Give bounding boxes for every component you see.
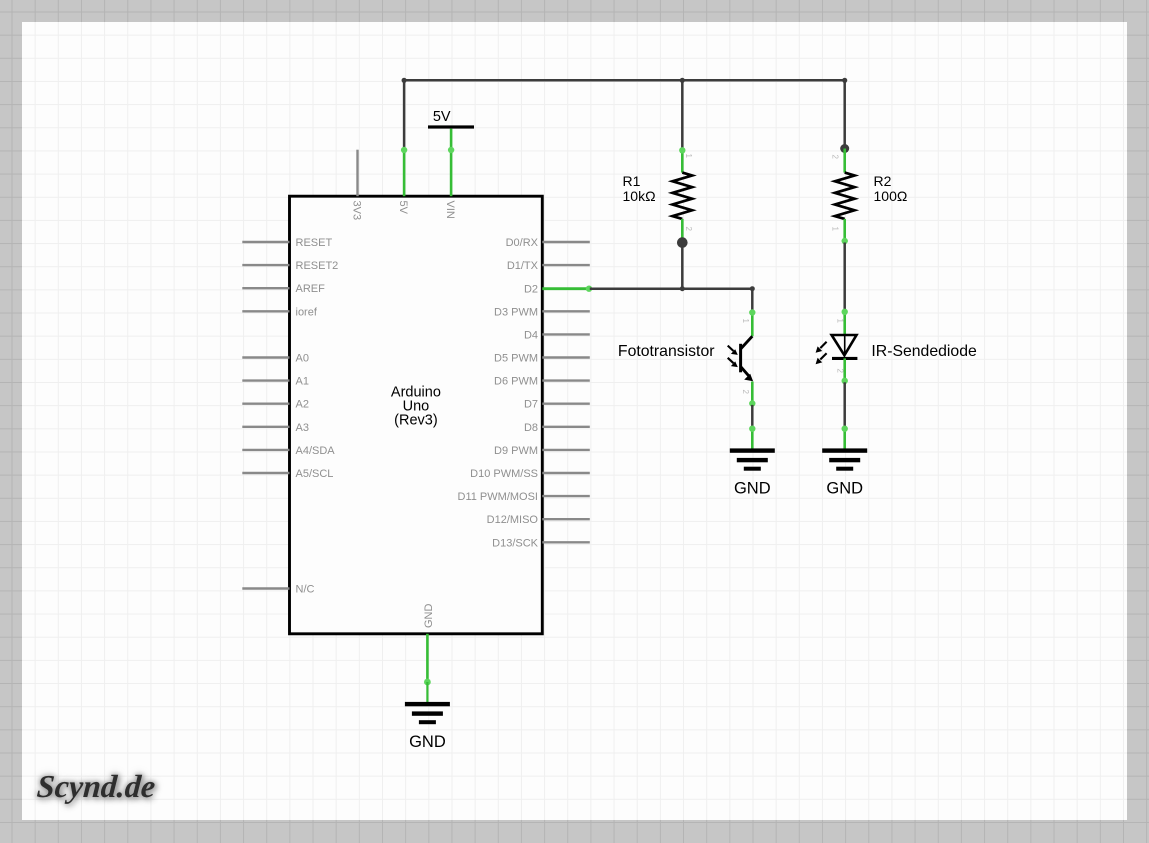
resistor R2: upper pin (green) <box>843 149 846 173</box>
endpoint blob D1 pin2 <box>842 378 848 384</box>
svg-text:2: 2 <box>836 369 845 374</box>
endpoint blob D1 pin1 <box>842 309 848 315</box>
endpoint blob GND2 pin <box>842 426 848 432</box>
resistor R2: lower pin (green) <box>843 219 846 243</box>
pin D3 PWM <box>542 310 590 312</box>
pin A0 <box>242 356 289 358</box>
pin A3 <box>242 426 289 428</box>
wire: vertical drop from top rail to R2 <box>843 80 846 148</box>
svg-text:R1: R1 <box>623 173 641 189</box>
svg-text:A3: A3 <box>296 422 309 434</box>
pin D9 PWM <box>542 449 590 451</box>
node: big dot below R1 <box>677 237 688 248</box>
svg-text:R2: R2 <box>874 173 892 189</box>
pin D2 (green, connected) <box>542 287 590 290</box>
pin D4 <box>542 333 590 335</box>
resistor R1: zigzag body <box>673 173 693 219</box>
endpoint blob on D2 pin <box>586 286 592 292</box>
pin D11 PWM/MOSI <box>542 495 590 497</box>
LED D1: light arrow 2 (emitting) <box>820 353 826 359</box>
pin RESET <box>242 241 289 243</box>
svg-text:D0/RX: D0/RX <box>506 237 539 249</box>
svg-text:D4: D4 <box>524 329 538 341</box>
svg-text:3V3: 3V3 <box>351 201 363 221</box>
pin D13/SCK <box>542 541 590 543</box>
svg-text:1: 1 <box>741 319 750 324</box>
pin A2 <box>242 403 289 405</box>
svg-text:D12/MISO: D12/MISO <box>487 514 539 526</box>
endpoint blob on VIN pin <box>448 147 454 153</box>
svg-text:GND: GND <box>423 604 435 629</box>
svg-text:1: 1 <box>836 319 845 324</box>
wire: LED cathode to GND symbol <box>843 382 846 428</box>
pin D8 <box>542 426 590 428</box>
endpoint blob on GND wire <box>424 679 431 686</box>
wire: vertical drop from top rail to R1 <box>681 80 684 149</box>
svg-text:5V: 5V <box>433 109 451 125</box>
phototransistor Q1: emitter pin (green) <box>751 382 754 405</box>
pin: Arduino GND pin (green, bottom) <box>426 634 429 682</box>
node: junction dot above R1 <box>680 78 685 83</box>
pin A1 <box>242 379 289 381</box>
svg-text:A0: A0 <box>296 353 309 365</box>
ground GND1: bars <box>730 448 775 452</box>
wire: Q1 emitter to GND symbol <box>751 405 754 429</box>
svg-text:Fototransistor: Fototransistor <box>618 343 715 360</box>
pin A5/SCL <box>242 472 289 474</box>
node: corner dot at 5V rail left <box>402 78 407 83</box>
pin AREF <box>242 287 289 289</box>
resistor R2: zigzag body <box>835 173 855 219</box>
svg-text:GND: GND <box>826 480 863 498</box>
svg-text:1: 1 <box>684 154 693 159</box>
phototransistor Q1: collector lead <box>741 336 753 349</box>
svg-text:D11 PWM/MOSI: D11 PWM/MOSI <box>458 491 538 503</box>
pin A4/SDA <box>242 449 289 451</box>
Arduino U1: body <box>290 196 543 634</box>
endpoint blob Q1 pin1 <box>749 309 755 315</box>
svg-text:D13/SCK: D13/SCK <box>492 537 539 549</box>
svg-text:IR-Sendediode: IR-Sendediode <box>871 343 977 360</box>
ground GND1 (under phototransistor): pin (green) <box>751 427 754 450</box>
pin D1/TX <box>542 264 590 266</box>
svg-text:ioref: ioref <box>296 306 318 318</box>
pin RESET2 <box>242 264 289 266</box>
svg-text:(Rev3): (Rev3) <box>394 412 438 428</box>
svg-text:5V: 5V <box>397 201 409 215</box>
svg-text:RESET2: RESET2 <box>296 260 339 272</box>
ground GND2 (under IR LED): pin (green) <box>843 427 846 450</box>
phototransistor Q1: base bar <box>739 344 742 373</box>
watermark logo Scynd.de <box>36 768 157 805</box>
node: corner dot above R2 <box>842 78 847 83</box>
svg-text:1: 1 <box>831 227 840 232</box>
wire: R1 bottom down to D2 net <box>681 243 684 289</box>
wire: down to phototransistor <box>751 289 754 313</box>
svg-text:D9 PWM: D9 PWM <box>494 445 538 457</box>
phototransistor Q1: light arrow 2 <box>728 358 734 363</box>
svg-text:GND: GND <box>409 733 446 751</box>
pin D7 <box>542 403 590 405</box>
pin: Arduino 5V pin (green) <box>403 148 406 196</box>
svg-text:RESET: RESET <box>296 237 333 249</box>
pin D5 PWM <box>542 356 590 358</box>
svg-text:D8: D8 <box>524 422 538 434</box>
svg-text:10kΩ: 10kΩ <box>623 188 656 204</box>
svg-text:A2: A2 <box>296 399 309 411</box>
pin ioref <box>242 310 289 312</box>
ground GND2: bars <box>822 448 867 452</box>
endpoint blob GND1 pin <box>749 426 755 432</box>
phototransistor Q1: collector pin (green) <box>751 312 754 337</box>
endpoint blob on 5V pin <box>401 147 407 153</box>
wire: D2 horizontal run <box>590 287 753 290</box>
pin: 3V3 stub (unconnected, gray) <box>356 150 358 197</box>
svg-text:2: 2 <box>741 390 750 395</box>
svg-text:A1: A1 <box>296 376 309 388</box>
resistor R1: upper pin (green) <box>681 149 684 173</box>
svg-text:2: 2 <box>684 227 693 232</box>
svg-text:AREF: AREF <box>296 283 326 295</box>
svg-text:GND: GND <box>734 480 771 498</box>
node: corner dot above phototransistor <box>750 286 755 291</box>
pin: Arduino VIN pin (green) <box>450 150 453 196</box>
svg-text:D1/TX: D1/TX <box>507 260 539 272</box>
endpoint blob Q1 pin2 <box>749 400 755 406</box>
LED D1 (IR): anode pin (green) <box>843 311 846 337</box>
phototransistor Q1: light arrow 1 <box>728 346 734 351</box>
endpoint blob R2 pin2 <box>842 238 848 244</box>
phototransistor Q1: emitter lead with arrow <box>741 367 750 378</box>
wire: R2 bottom to IR LED <box>843 243 846 312</box>
LED D1: center line <box>844 335 846 355</box>
svg-text:2: 2 <box>831 155 840 160</box>
ground GND3: bars <box>405 702 450 706</box>
pin D0/RX <box>542 241 590 243</box>
svg-text:100Ω: 100Ω <box>874 188 908 204</box>
wire: vertical drop from top rail to Arduino 5V pin <box>403 80 406 147</box>
pin D10 PWM/SS <box>542 472 590 474</box>
svg-text:A4/SDA: A4/SDA <box>296 445 336 457</box>
pin N/C <box>242 587 289 589</box>
ground GND3 (under Arduino): pin (green) <box>426 682 428 704</box>
LED D1: cathode pin (green) <box>843 358 846 382</box>
power symbol 5V: bar <box>428 125 474 128</box>
svg-text:D3 PWM: D3 PWM <box>494 306 538 318</box>
svg-text:D10 PWM/SS: D10 PWM/SS <box>470 468 538 480</box>
svg-text:D6 PWM: D6 PWM <box>494 376 538 388</box>
LED D1: triangle <box>832 335 857 355</box>
endpoint blob R1 pin1 <box>679 147 685 153</box>
node: junction on D2 net below R1 <box>680 286 685 291</box>
pin D12/MISO <box>542 518 590 520</box>
LED D1: light arrow 1 (emitting) <box>820 342 826 348</box>
resistor R1: lower pin (green) <box>681 219 684 243</box>
svg-text:N/C: N/C <box>296 584 315 596</box>
resistor R2: node dot at top <box>840 144 849 153</box>
svg-text:D2: D2 <box>524 284 538 296</box>
LED D1: cathode bar <box>832 357 857 360</box>
svg-text:D5 PWM: D5 PWM <box>494 353 538 365</box>
svg-text:VIN: VIN <box>444 201 456 219</box>
wire: 5V net top horizontal <box>404 79 845 82</box>
svg-text:D7: D7 <box>524 399 538 411</box>
pin: 5V symbol pin (green) down to VIN wire <box>450 129 453 151</box>
svg-text:A5/SCL: A5/SCL <box>296 468 334 480</box>
pin D6 PWM <box>542 379 590 381</box>
